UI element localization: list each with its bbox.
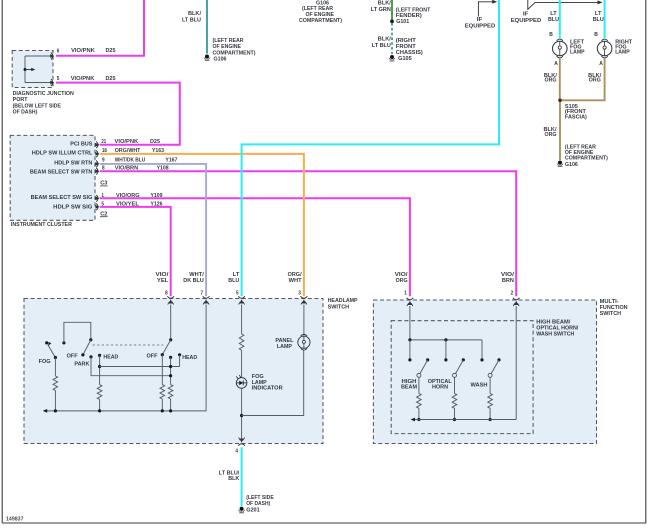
- svg-text:LAMP: LAMP: [277, 344, 292, 350]
- svg-text:BLK/: BLK/: [378, 37, 391, 43]
- svg-text:(LEFT REAR: (LEFT REAR: [213, 38, 245, 44]
- svg-text:HDLP SW SIG: HDLP SW SIG: [53, 204, 93, 210]
- svg-text:HDLP SW ILLUM CTRL: HDLP SW ILLUM CTRL: [32, 151, 93, 157]
- svg-text:D25: D25: [150, 139, 161, 145]
- svg-text:HEAD: HEAD: [103, 355, 118, 361]
- svg-text:OFF: OFF: [67, 354, 78, 360]
- svg-text:PANEL: PANEL: [275, 338, 293, 344]
- svg-text:HEADLAMP: HEADLAMP: [328, 298, 358, 304]
- svg-text:(BELOW LEFT SIDE: (BELOW LEFT SIDE: [13, 103, 61, 109]
- svg-text:8: 8: [165, 291, 168, 297]
- svg-text:B: B: [549, 32, 553, 38]
- svg-text:G105: G105: [398, 56, 412, 62]
- svg-text:FASCIA): FASCIA): [565, 115, 587, 121]
- svg-text:LT: LT: [595, 11, 602, 17]
- svg-text:ORG: ORG: [545, 132, 557, 138]
- svg-text:OF DASH): OF DASH): [13, 110, 38, 116]
- svg-text:BLK/: BLK/: [378, 0, 391, 6]
- svg-text:BLK/: BLK/: [188, 11, 201, 17]
- svg-text:Y167: Y167: [165, 157, 178, 163]
- svg-text:LT BLU: LT BLU: [372, 43, 391, 49]
- svg-text:Y126: Y126: [151, 201, 164, 207]
- svg-text:D25: D25: [106, 48, 117, 54]
- svg-text:BRN: BRN: [502, 278, 514, 284]
- svg-text:BEAM SELECT SW RTN: BEAM SELECT SW RTN: [30, 169, 93, 175]
- svg-text:EQUIPPED: EQUIPPED: [465, 24, 496, 30]
- svg-text:PCI BUS: PCI BUS: [70, 141, 92, 147]
- svg-text:VIO/PNK: VIO/PNK: [71, 48, 95, 54]
- svg-text:LT GRN: LT GRN: [371, 7, 391, 13]
- svg-text:G101: G101: [396, 19, 409, 25]
- svg-text:G201: G201: [246, 508, 260, 514]
- svg-text:21: 21: [101, 139, 106, 145]
- svg-text:OF ENGINE: OF ENGINE: [213, 44, 242, 50]
- svg-text:BLU: BLU: [228, 278, 239, 284]
- svg-text:OPTICAL HORN/: OPTICAL HORN/: [536, 326, 578, 332]
- svg-text:INSTRUMENT CLUSTER: INSTRUMENT CLUSTER: [11, 222, 73, 228]
- svg-text:VIO/PNK: VIO/PNK: [115, 139, 139, 145]
- svg-text:3: 3: [298, 291, 301, 297]
- svg-text:HIGH BEAM/: HIGH BEAM/: [536, 319, 570, 325]
- svg-text:Y109: Y109: [151, 193, 164, 199]
- svg-text:C3: C3: [100, 181, 108, 187]
- svg-text:(RIGHT: (RIGHT: [396, 38, 417, 44]
- svg-text:IF: IF: [523, 11, 529, 17]
- svg-text:OF DASH): OF DASH): [246, 501, 270, 507]
- svg-text:WHT/DK BLU: WHT/DK BLU: [115, 157, 146, 163]
- svg-text:BLU: BLU: [548, 17, 559, 23]
- svg-text:LAMP: LAMP: [570, 50, 585, 56]
- svg-text:Y163: Y163: [152, 148, 165, 154]
- svg-text:INDICATOR: INDICATOR: [252, 386, 284, 392]
- svg-text:WASH: WASH: [471, 383, 488, 389]
- svg-text:BEAM: BEAM: [401, 384, 417, 390]
- svg-text:ORG: ORG: [396, 278, 408, 284]
- svg-text:HEAD: HEAD: [182, 355, 197, 361]
- svg-text:PARK: PARK: [74, 361, 90, 367]
- svg-text:9: 9: [102, 157, 105, 163]
- svg-text:FOG: FOG: [39, 359, 51, 365]
- svg-text:VIO/BRN: VIO/BRN: [115, 165, 139, 171]
- svg-text:4: 4: [235, 448, 238, 454]
- svg-text:ORG: ORG: [545, 78, 557, 84]
- svg-text:COMPARTMENT): COMPARTMENT): [299, 18, 342, 24]
- svg-text:ORG: ORG: [589, 78, 601, 84]
- svg-text:HDLP SW RTN: HDLP SW RTN: [54, 160, 92, 166]
- svg-text:G106: G106: [214, 57, 228, 63]
- svg-text:Y108: Y108: [157, 165, 170, 171]
- svg-text:A: A: [599, 61, 603, 67]
- svg-text:DK BLU: DK BLU: [183, 278, 204, 284]
- svg-text:COMPARTMENT): COMPARTMENT): [565, 156, 608, 162]
- svg-text:BLU: BLU: [593, 17, 604, 23]
- svg-text:B: B: [594, 32, 598, 38]
- svg-text:5: 5: [57, 76, 60, 82]
- svg-text:SWITCH: SWITCH: [328, 304, 350, 310]
- svg-text:G106: G106: [565, 162, 578, 168]
- svg-text:VIO/YEL: VIO/YEL: [116, 201, 139, 207]
- svg-text:7: 7: [201, 291, 204, 297]
- svg-text:18: 18: [102, 148, 107, 154]
- svg-text:MULTI-: MULTI-: [600, 299, 619, 305]
- svg-text:PORT: PORT: [13, 97, 28, 103]
- svg-text:LT BLU: LT BLU: [182, 17, 201, 23]
- svg-text:HORN: HORN: [432, 384, 448, 390]
- svg-text:A: A: [554, 61, 558, 67]
- svg-text:6: 6: [57, 48, 60, 54]
- svg-text:2: 2: [511, 291, 514, 297]
- svg-text:DIAGNOSTIC JUNCTION: DIAGNOSTIC JUNCTION: [13, 91, 74, 97]
- svg-text:BLK: BLK: [228, 476, 240, 482]
- svg-text:ORG/WHT: ORG/WHT: [115, 148, 141, 154]
- svg-text:LT: LT: [550, 11, 557, 17]
- svg-text:WHT: WHT: [289, 278, 303, 284]
- svg-text:EQUIPPED: EQUIPPED: [511, 18, 542, 24]
- svg-text:5: 5: [236, 291, 239, 297]
- svg-text:C2: C2: [100, 211, 108, 217]
- svg-text:VIO/ORG: VIO/ORG: [116, 193, 140, 199]
- svg-text:VIO/PNK: VIO/PNK: [71, 76, 95, 82]
- svg-text:COMPARTMENT): COMPARTMENT): [213, 50, 256, 56]
- svg-text:FUNCTION: FUNCTION: [600, 305, 628, 311]
- svg-text:1: 1: [404, 291, 407, 297]
- svg-text:YEL: YEL: [157, 278, 169, 284]
- svg-text:WASH SWITCH: WASH SWITCH: [536, 332, 574, 338]
- svg-text:BEAM SELECT SW SIG: BEAM SELECT SW SIG: [31, 195, 93, 201]
- svg-text:IF: IF: [477, 17, 483, 23]
- svg-text:149837: 149837: [6, 517, 24, 523]
- svg-text:SWITCH: SWITCH: [600, 311, 622, 317]
- svg-text:D25: D25: [106, 76, 117, 82]
- svg-text:OFF: OFF: [147, 354, 158, 360]
- svg-text:LAMP: LAMP: [615, 50, 630, 56]
- svg-text:FRONT: FRONT: [396, 44, 417, 50]
